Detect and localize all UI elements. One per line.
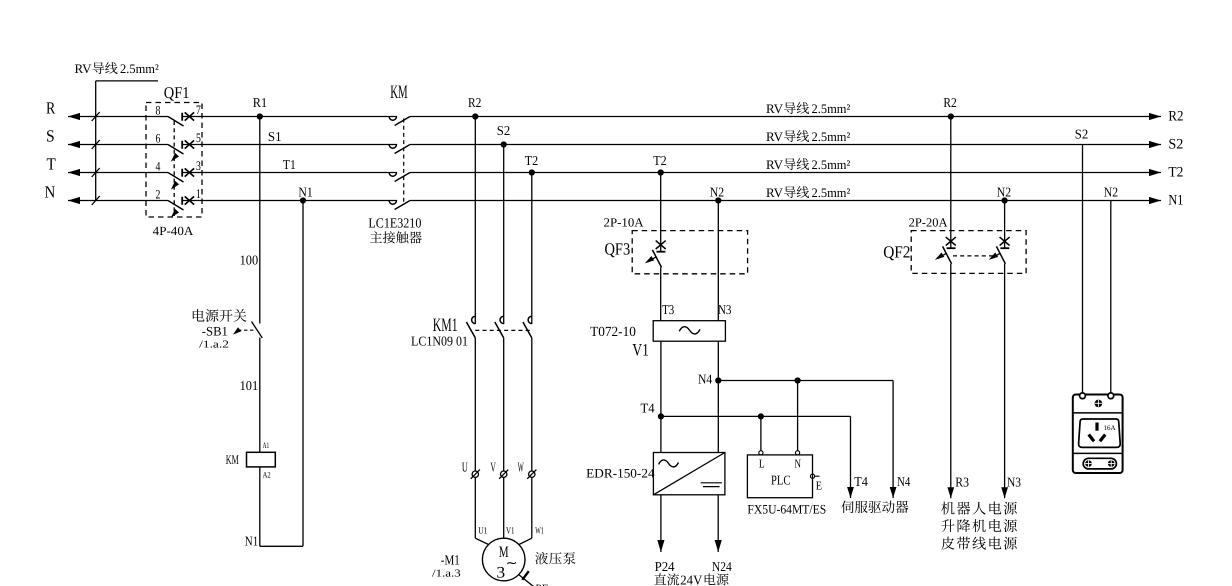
svg-text:N1: N1 [298,184,312,199]
svg-text:T4: T4 [641,401,655,416]
wire P24 [655,495,675,574]
svg-text:8: 8 [156,103,161,118]
svg-text:T1: T1 [283,157,296,172]
wire N4 vertical [717,341,719,452]
svg-text:QF3: QF3 [605,240,631,259]
svg-text:FX5U-64MT/ES: FX5U-64MT/ES [747,502,826,517]
svg-text:16A: 16A [1104,424,1116,432]
terminal W [518,459,537,479]
wire S2 down [503,145,505,325]
svg-text:7: 7 [196,102,201,117]
svg-text:R2: R2 [468,95,481,110]
svg-text:N: N [45,182,56,201]
svg-text:PE: PE [536,582,549,586]
svg-text:N2: N2 [1104,185,1118,200]
node R1 [253,95,267,119]
svg-text:V: V [490,459,496,474]
label M1 [432,554,461,580]
breaker QF2 [911,231,1026,274]
svg-text:4P-40A: 4P-40A [153,224,194,238]
wire T4 horizontal [661,416,854,498]
node R2 junction QF2 [943,95,956,119]
svg-text:N1: N1 [1168,193,1183,209]
label DC 24V supply [654,572,728,586]
wire to W [531,338,533,471]
node R2 junction [468,95,481,119]
contactor KM main contacts [389,117,410,210]
svg-text:3: 3 [496,564,505,581]
svg-text:V1: V1 [632,340,648,360]
node N2 junction QF3 [710,185,724,204]
svg-text:6: 6 [156,131,161,146]
svg-text:N24: N24 [712,559,732,574]
wire PE [519,571,549,586]
svg-text:RV: RV [75,61,93,76]
svg-text:/1.a.2: /1.a.2 [199,340,229,351]
svg-text:S1: S1 [268,129,282,144]
svg-text:2: 2 [156,187,161,202]
svg-text:100: 100 [240,252,259,267]
pin N [795,381,802,471]
wire R bus [68,113,1161,120]
svg-text:W1: W1 [535,527,544,537]
svg-text:U: U [462,459,468,474]
filter V1 T072-10 [653,321,725,342]
breaker QF2 pole N [987,201,1009,499]
svg-text:2P-20A: 2P-20A [909,216,948,230]
wire W1 [519,477,544,544]
svg-text:R2: R2 [943,95,956,110]
svg-text:2.5mm²: 2.5mm² [120,61,159,76]
svg-text:3: 3 [196,158,201,173]
breaker QF3 [632,231,747,274]
svg-text:A1: A1 [263,441,270,450]
svg-text:/1.a.3: /1.a.3 [432,568,461,579]
wire 101 [240,338,260,453]
node N2 junction QF2 [997,185,1011,204]
wire coil to N1 [245,201,303,549]
terminal U [462,459,480,479]
node T2 junction QF3 [653,153,666,176]
label robot power [941,502,1017,515]
node N1 junction [298,184,312,203]
breaker QF3 pole T [643,173,665,321]
switch SB1 [231,322,262,339]
svg-text:EDR-150-24: EDR-150-24 [586,465,655,480]
svg-text:2.5mm²: 2.5mm² [812,185,851,200]
svg-text:T2: T2 [653,153,666,168]
coil KM [226,441,275,480]
svg-text:P24: P24 [655,559,675,574]
svg-text:RV: RV [766,101,784,116]
cable slash marks [92,112,100,205]
svg-text:1: 1 [196,186,201,201]
svg-text:-SB1: -SB1 [202,323,228,338]
svg-text:LC1E3210: LC1E3210 [368,217,421,232]
node N4 [698,372,721,387]
wire U1 [475,477,488,544]
wire T4 vertical [660,341,662,452]
svg-text:T3: T3 [662,302,674,317]
svg-text:∼: ∼ [506,557,518,572]
svg-text:E: E [816,478,822,492]
svg-text:R2: R2 [1168,109,1183,125]
svg-text:5: 5 [196,130,201,145]
svg-text:N2: N2 [997,185,1011,200]
svg-text:R3: R3 [955,475,969,490]
wire 100 [240,117,260,324]
socket outlet 16A [1073,393,1123,473]
svg-text:S2: S2 [497,123,510,138]
svg-text:RV: RV [766,129,784,144]
svg-text:R1: R1 [253,95,267,110]
breaker QF1 [146,102,202,220]
wire R2 down [474,117,476,325]
node T4-L branch [758,413,764,419]
svg-text:L: L [759,457,765,471]
svg-text:V1: V1 [506,527,515,537]
pin L [759,416,765,470]
label SB1 [193,309,247,351]
node S2 junction [497,123,510,148]
breaker QF2 pole R [933,117,955,499]
svg-text:S2: S2 [1168,137,1183,153]
svg-text:T4: T4 [854,474,868,489]
svg-text:T072-10: T072-10 [590,325,636,340]
motor M1 [482,538,525,581]
svg-text:RV: RV [766,157,784,172]
svg-text:QF1: QF1 [164,83,190,102]
power supply EDR-150-24 [653,453,725,495]
svg-text:U1: U1 [478,527,487,537]
svg-text:24V: 24V [680,572,702,586]
svg-text:LC1N09 01: LC1N09 01 [411,334,468,349]
svg-text:2.5mm²: 2.5mm² [812,101,851,116]
label belt power [941,537,1016,550]
svg-text:N2: N2 [710,185,724,200]
wire N bus [68,197,1161,204]
wire to U [474,338,476,471]
svg-text:-M1: -M1 [441,554,460,569]
label hydraulic pump [535,552,575,565]
svg-text:T2: T2 [1168,165,1183,181]
svg-text:4: 4 [156,159,161,174]
svg-text:N4: N4 [698,372,712,387]
svg-text:2P-10A: 2P-10A [604,216,644,230]
svg-text:RV: RV [766,185,784,200]
wire QF3 pole N [717,201,719,321]
svg-text:101: 101 [240,378,259,393]
svg-text:2.5mm²: 2.5mm² [812,129,851,144]
svg-text:2.5mm²: 2.5mm² [812,157,851,172]
svg-text:S: S [46,126,55,145]
svg-text:KM: KM [226,452,239,467]
wire N24 [712,495,732,574]
wire N4 horizontal [718,381,896,499]
svg-text:W: W [518,459,524,474]
cable label RV 2.5mm2 top-left [75,61,93,76]
svg-text:PLC: PLC [771,472,790,487]
wire T bus [68,169,1161,176]
PLC FX5U [747,455,812,498]
svg-text:KM: KM [390,82,408,103]
svg-text:N4: N4 [897,474,911,489]
svg-text:QF2: QF2 [883,243,910,262]
svg-text:T2: T2 [525,153,538,168]
wire to V [503,338,505,471]
pin E [810,474,822,492]
svg-text:S2: S2 [1075,126,1088,141]
wire T2 down [531,173,533,325]
svg-text:T: T [47,154,57,173]
svg-text:A2: A2 [263,471,271,480]
wire V1 [504,477,515,538]
svg-text:N: N [795,457,802,471]
label main contactor [370,231,422,243]
wire S2 to socket [1082,145,1084,394]
label servo drive [841,501,908,514]
wire cable leader [96,81,158,201]
wire N2 to socket [1110,201,1112,394]
node N4-N branch [795,377,801,383]
node T2 junction KM1 [525,153,538,176]
svg-text:N1: N1 [245,533,258,548]
wire S bus [68,141,1161,148]
node T4 [641,401,665,420]
svg-text:N3: N3 [1007,475,1021,490]
svg-text:R: R [46,98,56,117]
svg-text:N3: N3 [718,302,732,317]
terminal V [490,459,508,479]
label lift power [941,519,1017,532]
contactor KM1 [466,316,533,338]
